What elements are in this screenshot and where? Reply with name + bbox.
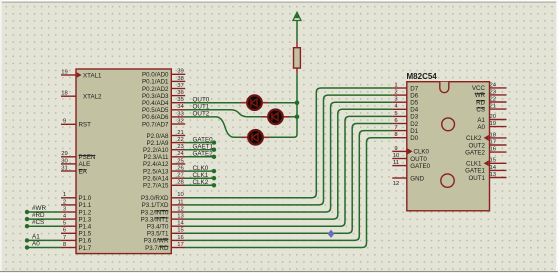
- svg-text:16: 16: [177, 235, 184, 241]
- svg-text:13: 13: [177, 214, 184, 220]
- svg-text:22: 22: [490, 96, 497, 102]
- svg-text:P2.0/A8: P2.0/A8: [146, 133, 169, 140]
- svg-text:16: 16: [490, 147, 497, 153]
- svg-text:P0.1/AD1: P0.1/AD1: [142, 79, 169, 86]
- svg-text:P0.0/AD0: P0.0/AD0: [142, 72, 169, 79]
- svg-text:25: 25: [177, 158, 184, 164]
- svg-text:30: 30: [61, 158, 68, 164]
- svg-text:P2.5/A13: P2.5/A13: [143, 168, 169, 175]
- svg-text:P3.5/T1: P3.5/T1: [147, 231, 169, 238]
- svg-text:20: 20: [490, 114, 497, 120]
- svg-text:P3.1/TXD: P3.1/TXD: [142, 202, 169, 209]
- svg-text:12: 12: [177, 206, 184, 212]
- svg-text:D1: D1: [410, 128, 418, 135]
- svg-text:OUT1: OUT1: [468, 175, 485, 182]
- svg-text:11: 11: [177, 199, 183, 205]
- svg-text:13: 13: [490, 172, 497, 178]
- svg-text:VCC: VCC: [472, 85, 486, 92]
- svg-text:19: 19: [61, 69, 68, 75]
- svg-text:M82C54: M82C54: [407, 72, 438, 81]
- svg-text:GND: GND: [410, 175, 424, 182]
- svg-text:P2.7/A15: P2.7/A15: [143, 183, 169, 190]
- svg-text:CLK2: CLK2: [193, 179, 209, 186]
- svg-text:GATE2: GATE2: [465, 149, 485, 156]
- svg-text:CLK1: CLK1: [466, 161, 482, 168]
- svg-text:1: 1: [394, 82, 397, 88]
- svg-text:P1.3: P1.3: [79, 216, 92, 223]
- svg-text:A0: A0: [477, 124, 485, 131]
- svg-text:GATE0: GATE0: [193, 136, 214, 143]
- svg-text:P1.6: P1.6: [79, 238, 92, 245]
- svg-text:CLK2: CLK2: [466, 135, 482, 142]
- svg-text:37: 37: [177, 83, 184, 89]
- svg-text:D4: D4: [410, 107, 418, 114]
- svg-text:#RD: #RD: [32, 212, 45, 219]
- svg-text:12: 12: [393, 181, 400, 187]
- svg-text:10: 10: [177, 192, 184, 198]
- svg-text:CLK0: CLK0: [414, 149, 430, 156]
- svg-text:28: 28: [177, 180, 184, 186]
- svg-text:OUT0: OUT0: [410, 156, 427, 163]
- svg-text:38: 38: [177, 76, 184, 82]
- svg-text:P2.4/A12: P2.4/A12: [143, 161, 169, 168]
- svg-text:P2.3/A11: P2.3/A11: [144, 154, 170, 161]
- svg-text:14: 14: [177, 221, 184, 227]
- svg-text:10: 10: [393, 153, 400, 159]
- svg-text:P2.1/A9: P2.1/A9: [146, 140, 169, 147]
- svg-text:XTAL1: XTAL1: [83, 72, 102, 79]
- svg-text:A1: A1: [477, 117, 485, 124]
- svg-text:#CS: #CS: [32, 219, 44, 226]
- svg-text:24: 24: [177, 151, 184, 157]
- svg-text:P0.5/AD5: P0.5/AD5: [142, 107, 169, 114]
- svg-text:15: 15: [490, 158, 497, 164]
- svg-text:P0.3/AD3: P0.3/AD3: [142, 93, 169, 100]
- svg-text:21: 21: [177, 130, 184, 136]
- svg-text:14: 14: [490, 165, 497, 171]
- svg-text:OUT2: OUT2: [193, 111, 210, 118]
- svg-text:P2.2/A10: P2.2/A10: [143, 147, 169, 154]
- svg-text:CLK1: CLK1: [193, 172, 209, 179]
- svg-text:11: 11: [393, 160, 399, 166]
- svg-text:A1: A1: [32, 233, 40, 240]
- svg-text:21: 21: [490, 104, 497, 110]
- svg-text:P1.1: P1.1: [79, 202, 92, 209]
- svg-text:P0.2/AD2: P0.2/AD2: [142, 86, 169, 93]
- svg-text:ALE: ALE: [79, 161, 91, 168]
- svg-text:#WR: #WR: [32, 205, 46, 212]
- svg-text:P2.6/A14: P2.6/A14: [143, 176, 169, 183]
- svg-text:9: 9: [394, 146, 397, 152]
- svg-text:24: 24: [490, 82, 497, 88]
- svg-text:GAET1: GAET1: [193, 144, 214, 151]
- svg-text:GATE0: GATE0: [410, 163, 430, 170]
- svg-text:2: 2: [394, 90, 397, 96]
- svg-text:9: 9: [63, 119, 66, 125]
- svg-text:19: 19: [490, 121, 497, 127]
- svg-text:P0.6/AD6: P0.6/AD6: [142, 114, 169, 121]
- svg-text:18: 18: [490, 132, 497, 138]
- svg-text:31: 31: [61, 165, 68, 171]
- svg-text:23: 23: [490, 89, 497, 95]
- svg-text:17: 17: [177, 242, 184, 248]
- svg-text:32: 32: [177, 118, 184, 124]
- svg-text:D2: D2: [410, 121, 418, 128]
- svg-text:2: 2: [63, 199, 66, 205]
- svg-text:GATE2: GATE2: [193, 151, 214, 158]
- svg-text:P0.4/AD4: P0.4/AD4: [142, 100, 169, 107]
- svg-text:33: 33: [177, 111, 184, 117]
- svg-text:34: 34: [177, 104, 184, 110]
- svg-text:39: 39: [177, 69, 184, 75]
- svg-text:XTAL2: XTAL2: [83, 94, 102, 101]
- svg-text:17: 17: [490, 139, 497, 145]
- svg-text:15: 15: [177, 228, 184, 234]
- svg-text:D0: D0: [410, 135, 418, 142]
- svg-text:D5: D5: [410, 100, 418, 107]
- svg-text:22: 22: [177, 137, 184, 143]
- svg-text:D7: D7: [410, 85, 418, 92]
- svg-text:P3.0/RXD: P3.0/RXD: [141, 195, 169, 202]
- svg-text:D6: D6: [410, 92, 418, 99]
- svg-text:7: 7: [63, 235, 66, 241]
- svg-text:23: 23: [177, 144, 184, 150]
- svg-text:P1.0: P1.0: [79, 195, 92, 202]
- svg-text:1: 1: [63, 192, 66, 198]
- svg-text:GATE1: GATE1: [465, 168, 485, 175]
- svg-text:OUT1: OUT1: [193, 104, 210, 111]
- svg-text:P1.5: P1.5: [79, 231, 92, 238]
- svg-text:P1.4: P1.4: [79, 224, 92, 231]
- svg-text:P1.2: P1.2: [79, 209, 92, 216]
- svg-text:RST: RST: [79, 122, 92, 129]
- svg-text:OUT0: OUT0: [193, 97, 210, 104]
- svg-text:CLK0: CLK0: [193, 165, 209, 172]
- svg-text:7: 7: [394, 125, 397, 131]
- svg-text:A0: A0: [32, 241, 40, 248]
- svg-text:36: 36: [177, 90, 184, 96]
- svg-text:18: 18: [61, 91, 68, 97]
- svg-text:P3.4/T0: P3.4/T0: [147, 224, 169, 231]
- svg-text:26: 26: [177, 166, 184, 172]
- svg-text:29: 29: [61, 151, 68, 157]
- svg-text:P1.7: P1.7: [79, 245, 92, 252]
- svg-text:D3: D3: [410, 114, 418, 121]
- svg-text:P0.7/AD7: P0.7/AD7: [142, 121, 169, 128]
- svg-text:27: 27: [177, 173, 184, 179]
- svg-text:35: 35: [177, 97, 184, 103]
- svg-text:OUT2: OUT2: [468, 142, 485, 149]
